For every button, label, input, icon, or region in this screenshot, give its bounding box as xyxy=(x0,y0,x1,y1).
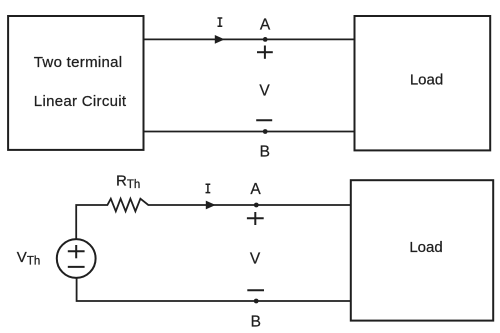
svg-text:B: B xyxy=(251,313,261,330)
svg-text:A: A xyxy=(250,181,261,198)
svg-text:V: V xyxy=(250,251,261,268)
svg-text:Load: Load xyxy=(409,239,442,256)
svg-text:Load: Load xyxy=(410,72,443,89)
svg-text:VTh: VTh xyxy=(17,249,40,268)
svg-text:A: A xyxy=(260,17,271,34)
svg-text:Linear Circuit: Linear Circuit xyxy=(34,93,127,110)
svg-text:B: B xyxy=(260,143,270,160)
svg-text:Two terminal: Two terminal xyxy=(34,54,123,71)
svg-text:V: V xyxy=(259,83,270,100)
svg-text:RTh: RTh xyxy=(116,172,140,191)
